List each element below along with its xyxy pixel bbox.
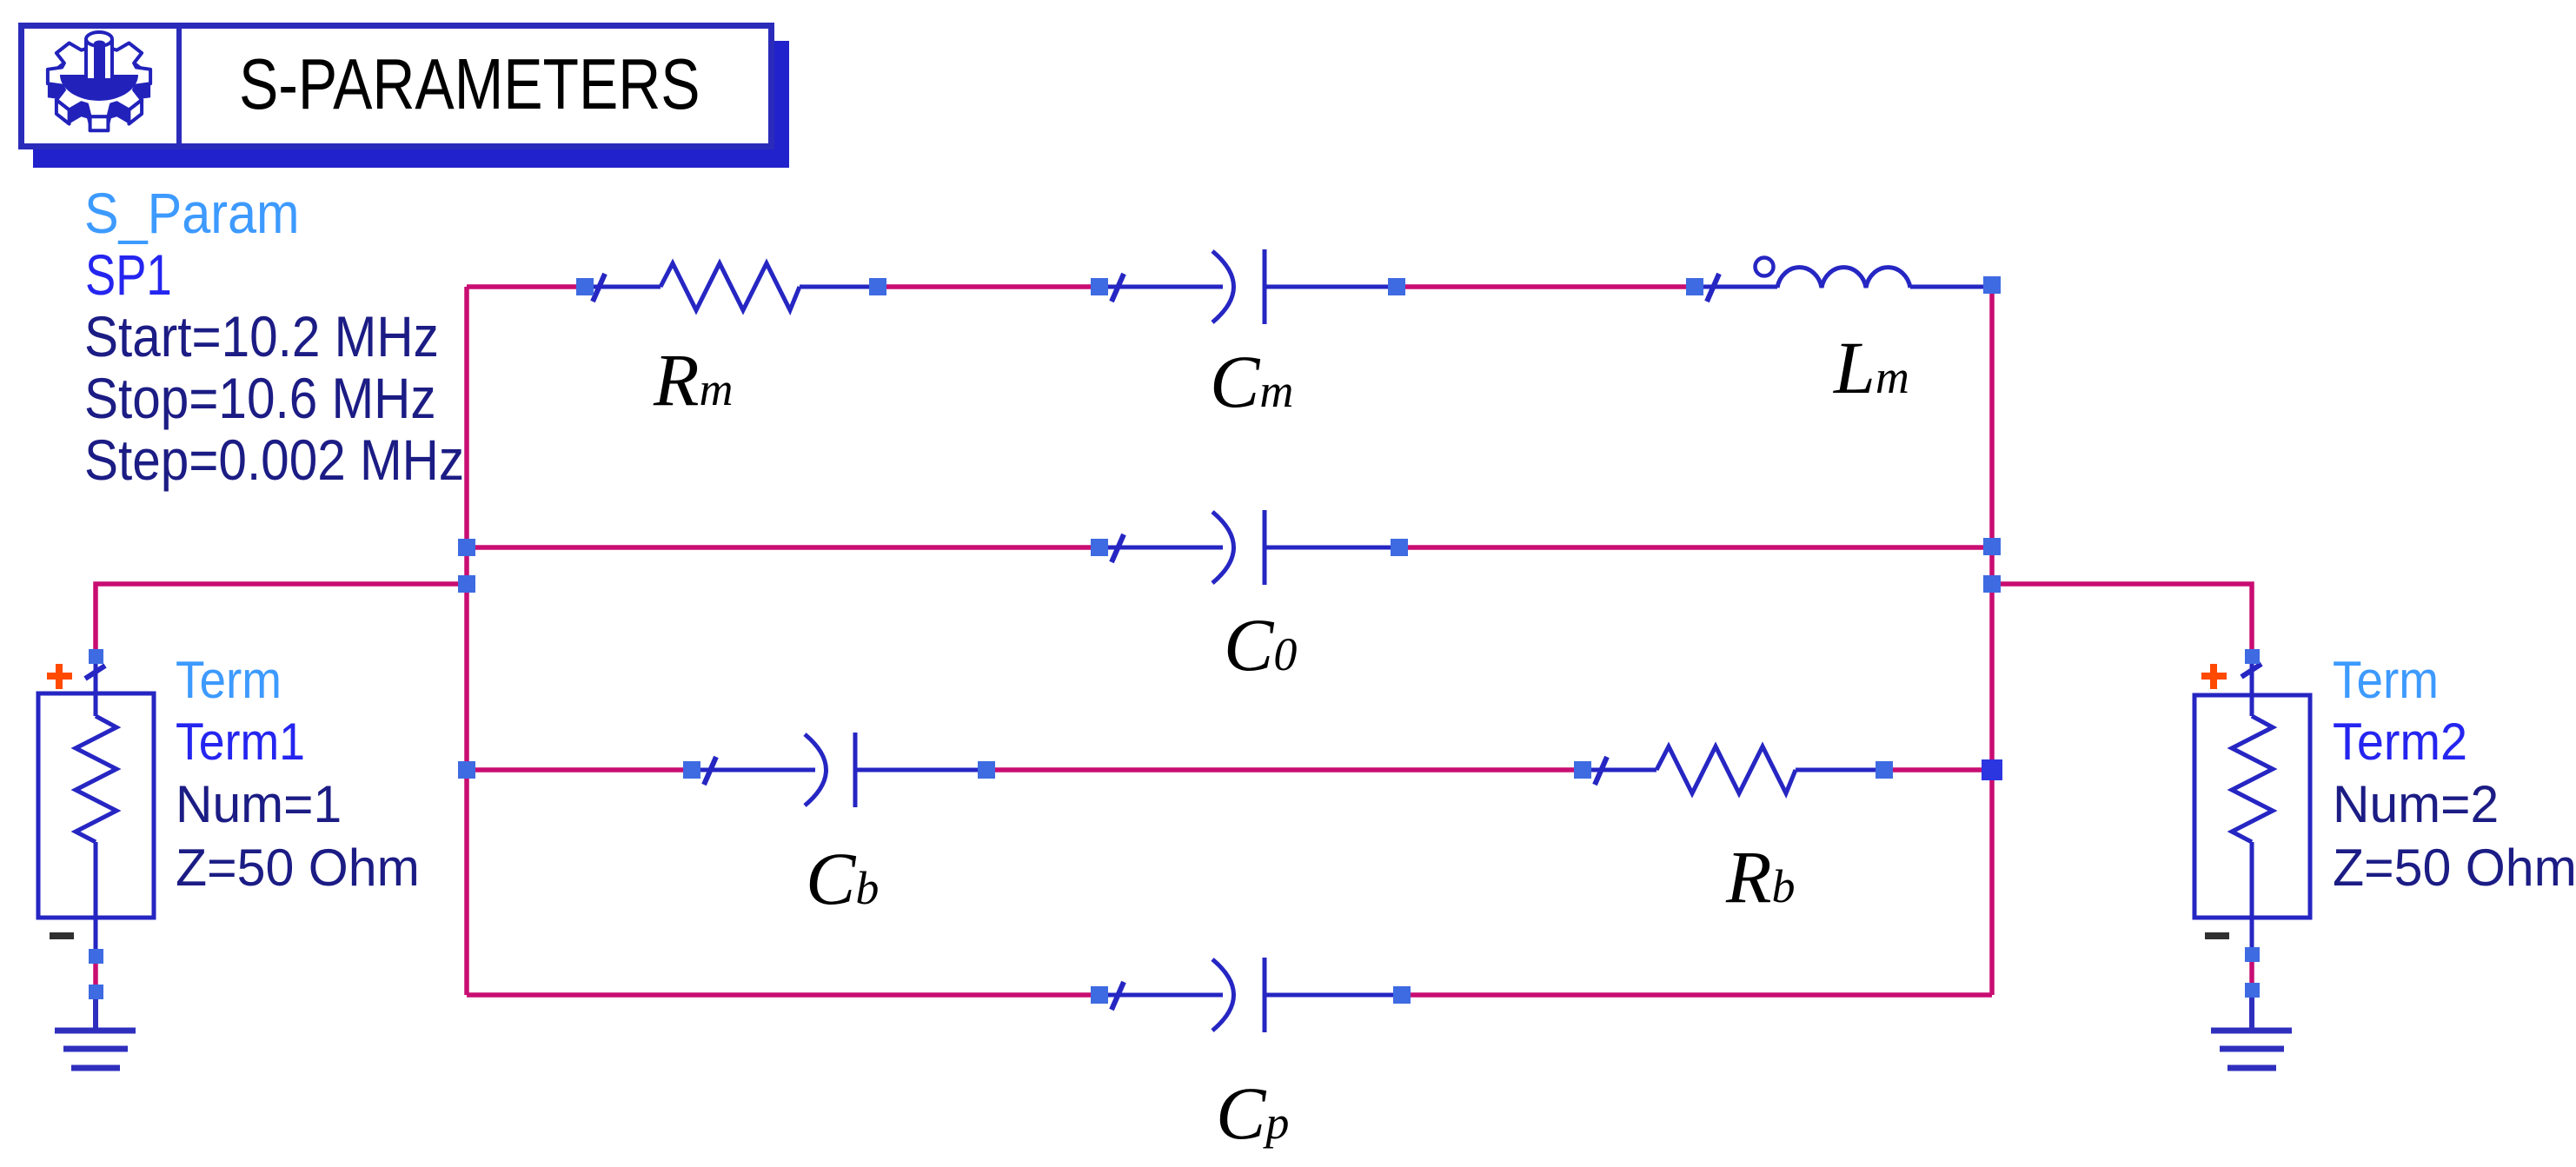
node Lm pin1: [1686, 278, 1703, 295]
resistor Rm: [585, 263, 878, 310]
Term1 component: [38, 663, 154, 952]
capacitor Cm: [1099, 249, 1397, 324]
node junction left Term: [458, 575, 475, 593]
node ground1 pin: [89, 985, 103, 999]
svg-text:Term1: Term1: [176, 713, 305, 771]
svg-text:Num=1: Num=1: [176, 774, 342, 833]
gear icon: [48, 32, 150, 130]
wire C0 row right: [1399, 545, 1992, 550]
minus sign Term2: [2205, 932, 2229, 939]
wire Cb row left: [467, 767, 692, 772]
wire right column: [1989, 291, 1995, 995]
svg-text:Num=2: Num=2: [2333, 774, 2499, 833]
svg-text:S_Param: S_Param: [84, 182, 300, 246]
node Rm pin1: [576, 278, 594, 295]
svg-text:Term2: Term2: [2333, 713, 2467, 771]
node Term1 pin2: [89, 949, 103, 964]
wire Term1 ground stub: [93, 959, 98, 989]
node Rb pin2: [1876, 761, 1893, 779]
svg-text:Term: Term: [2333, 652, 2439, 710]
node C0 pin2: [1391, 539, 1408, 556]
node Term2 pin1: [2245, 649, 2260, 664]
wire Cp row right: [1402, 992, 1992, 998]
wire left column: [464, 287, 469, 995]
wire Cb-Rb: [986, 767, 1583, 772]
svg-text:S-PARAMETERS: S-PARAMETERS: [239, 44, 700, 125]
node Rm pin2: [869, 278, 886, 295]
capacitor C0: [1099, 510, 1399, 585]
node junction left Cb: [458, 761, 475, 779]
wire top row left segment: [467, 284, 585, 289]
inductor Lm: [1695, 258, 1992, 302]
wire Term2 ground stub: [2249, 958, 2254, 987]
svg-text:Stop=10.6 MHz: Stop=10.6 MHz: [84, 368, 436, 431]
svg-text:SP1: SP1: [85, 242, 172, 307]
node Term1 pin1: [89, 649, 103, 664]
svg-text:Z=50 Ohm: Z=50 Ohm: [176, 839, 420, 898]
node junction left C0: [458, 539, 475, 556]
svg-text:Term: Term: [176, 652, 282, 710]
wire top row Rm-Cm: [878, 284, 1099, 289]
svg-text:Step=0.002 MHz: Step=0.002 MHz: [84, 429, 464, 493]
node Term2 pin2: [2245, 947, 2260, 962]
capacitor Cb: [692, 733, 986, 807]
label Term2: [2333, 652, 2576, 897]
Term2 component: [2194, 661, 2310, 952]
box divider: [176, 23, 182, 149]
node corner top-right: [1983, 276, 2001, 294]
box shadow: [33, 41, 789, 168]
node Cp pin1: [1091, 986, 1108, 1004]
minus sign Term1: [50, 932, 74, 939]
wire Rb right: [1884, 767, 1992, 772]
node Cb pin2: [978, 761, 995, 779]
ground Term1: [55, 998, 136, 1068]
S-PARAMETERS controller box: [22, 23, 790, 168]
wire Term2 row: [1992, 584, 2252, 654]
resistor Rb: [1583, 746, 1884, 793]
node Cb pin1: [683, 761, 700, 779]
node junction right Cb: [1982, 759, 2002, 780]
S_Param text block: [84, 182, 464, 493]
box frame: [22, 26, 772, 147]
wire C0 row left: [467, 545, 1099, 550]
wire Term1 row: [96, 584, 467, 656]
node junction right C0: [1983, 538, 2001, 555]
svg-text:Z=50 Ohm: Z=50 Ohm: [2333, 839, 2576, 898]
node Cm pin1: [1091, 278, 1108, 295]
wire Cp row left: [467, 992, 1099, 998]
plus sign Term2: [2201, 664, 2227, 689]
ground Term2: [2211, 997, 2292, 1068]
node junction right Term: [1983, 575, 2001, 593]
hub cylinder: [86, 39, 112, 80]
node Rb pin1: [1574, 761, 1591, 779]
label Term1: [176, 652, 420, 897]
node ground2 pin: [2245, 983, 2260, 998]
wire top row Cm-Lm: [1397, 284, 1695, 289]
node C0 pin1: [1091, 539, 1108, 556]
capacitor Cp: [1099, 958, 1402, 1032]
plus sign Term1: [47, 664, 72, 689]
svg-text:Start=10.2 MHz: Start=10.2 MHz: [84, 306, 439, 369]
node Cm pin2: [1388, 278, 1405, 295]
node Cp pin2: [1393, 986, 1411, 1004]
